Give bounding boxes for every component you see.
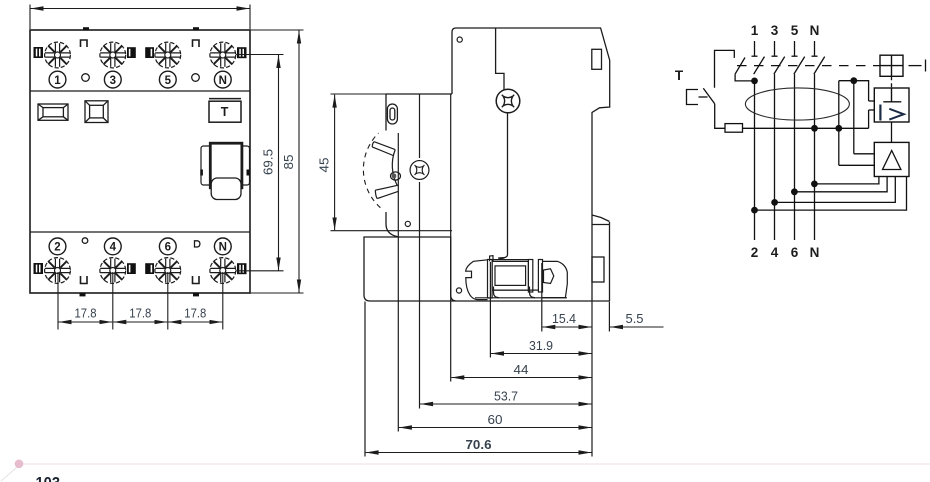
- sense input wire 1: [854, 153, 875, 155]
- dimension 31.9: [491, 353, 592, 355]
- test resistor: [725, 124, 743, 133]
- dimension 85: [250, 30, 304, 293]
- din rail clip left spring: [466, 260, 488, 300]
- side view main outline: [364, 28, 610, 301]
- clamp tab right of screw N bottom: [237, 263, 247, 274]
- svg-text:T: T: [675, 68, 684, 83]
- contact blade pole 3: [774, 57, 785, 75]
- terminal screw N top: [210, 42, 236, 68]
- indicator square: [85, 101, 108, 123]
- sense input wire 2: [839, 164, 875, 166]
- terminal screw 5: [155, 42, 181, 68]
- clamp tab right of screw 3: [127, 47, 136, 58]
- clamp tab right of screw N top: [237, 47, 247, 58]
- bottom edge nub left: [80, 293, 86, 297]
- upper assembly screw: [496, 89, 520, 113]
- sense wire right: [853, 81, 855, 154]
- toggle recess notch left: [200, 170, 203, 176]
- din rail clip bar 2: [528, 260, 532, 293]
- svg-text:6: 6: [791, 245, 799, 260]
- small hole top row: [82, 74, 90, 82]
- svg-text:85: 85: [281, 155, 296, 170]
- clamp tab right of screw 4: [127, 263, 136, 274]
- circled pole number N top: [214, 71, 231, 88]
- sealing slot capsule: [387, 104, 397, 124]
- junction sense left: [835, 125, 842, 132]
- dimension 17.8 second: [113, 321, 167, 323]
- din rail clip bar 1: [488, 260, 493, 299]
- terminal screw 4: [100, 258, 126, 284]
- front view section divider upper: [30, 90, 250, 92]
- u mark bottom right: [193, 276, 200, 284]
- relay to amplifier link: [891, 122, 893, 142]
- contact blade extra: [735, 58, 745, 75]
- dimension 69.5: [236, 55, 284, 271]
- relay bottom wire: [868, 110, 870, 128]
- svg-text:N: N: [810, 245, 820, 260]
- svg-text:2: 2: [54, 242, 60, 254]
- din rail clip bar 3: [538, 260, 542, 293]
- svg-text:17.8: 17.8: [184, 306, 206, 321]
- toggle lever upper arm: [372, 142, 395, 156]
- front view section divider lower: [30, 231, 250, 233]
- pi mark top between 1 and 3: [81, 40, 88, 47]
- inner ridge line: [496, 28, 504, 90]
- svg-text:5: 5: [165, 75, 172, 87]
- front view body outline: [30, 30, 250, 293]
- pole N terminal stub: [812, 41, 818, 56]
- din rail clip right hook: [543, 261, 568, 297]
- din rail cross-section rect: [592, 257, 604, 282]
- dimension 53.7: [420, 403, 591, 405]
- u mark bottom left: [81, 276, 88, 284]
- test wire lower: [715, 104, 725, 129]
- circled pole number 5: [159, 71, 176, 88]
- rail hook flag: [592, 215, 610, 225]
- junction amp 4: [771, 199, 778, 206]
- dimension extension lines below side view: [365, 95, 609, 457]
- circled pole number 1: [49, 71, 66, 88]
- pole 1 wire: [754, 81, 756, 240]
- small D mark bottom row: [195, 241, 200, 247]
- dimension 45: [331, 94, 453, 231]
- lower assembly screw: [410, 161, 429, 180]
- pole 5 wire: [794, 74, 796, 240]
- svg-text:N: N: [810, 23, 820, 38]
- svg-text:5.5: 5.5: [626, 311, 644, 326]
- pole 3 wire: [774, 74, 776, 240]
- relay tab top: [869, 100, 875, 102]
- junction amp 2: [751, 207, 758, 214]
- linkage end tick: [925, 60, 927, 72]
- relay tab bottom: [869, 109, 875, 111]
- circled pole number 4: [104, 238, 121, 255]
- toggle handle: [210, 143, 242, 188]
- junction amp 6: [791, 188, 798, 195]
- test tap elbow: [735, 74, 754, 81]
- svg-text:4: 4: [110, 242, 117, 254]
- clamp tab left of screw 2: [34, 263, 44, 274]
- clamp tab left of screw 5: [145, 47, 154, 58]
- svg-text:17.8: 17.8: [75, 306, 97, 321]
- svg-text:T: T: [221, 105, 229, 119]
- bottom edge nub right: [193, 293, 199, 297]
- linkage dashed line: [737, 65, 880, 67]
- svg-text:17.8: 17.8: [129, 306, 151, 321]
- toggle hub: [392, 150, 397, 186]
- svg-text:1: 1: [751, 23, 759, 38]
- pole 1 terminal stub: [752, 41, 758, 56]
- small hole bottom row: [82, 238, 88, 244]
- terminal screw 1: [45, 42, 71, 68]
- clamp tab left of screw 6: [145, 263, 154, 274]
- dimension 17.8 third: [168, 321, 222, 323]
- terminal screw 6: [155, 258, 181, 284]
- top edge nub left: [83, 27, 89, 30]
- dimension 44: [451, 377, 591, 379]
- overall width dimension (top): [30, 5, 250, 30]
- svg-text:2: 2: [751, 245, 759, 260]
- relay label greater: [889, 109, 904, 120]
- sense wire left: [838, 81, 840, 166]
- amp output wire to 6: [794, 177, 887, 192]
- pole 3 terminal stub: [772, 41, 778, 56]
- circled pole number 6: [159, 238, 176, 255]
- current transformer core: [745, 88, 849, 120]
- circled pole number 2: [49, 238, 66, 255]
- housing hole bottom: [456, 288, 461, 293]
- toggle lever lower arm: [375, 185, 398, 198]
- toggle shaft detail: [391, 172, 401, 180]
- svg-text:3: 3: [771, 23, 779, 38]
- top right notch rect: [592, 49, 602, 69]
- svg-text:N: N: [219, 75, 227, 87]
- housing hole mid: [405, 221, 410, 226]
- footer rule pink: [23, 463, 930, 465]
- housing hole top: [457, 37, 462, 42]
- indicator window rectangle: [38, 104, 68, 120]
- top edge nub right: [193, 27, 199, 30]
- svg-text:45: 45: [317, 158, 332, 173]
- svg-text:N: N: [219, 242, 227, 254]
- svg-text:4: 4: [771, 245, 779, 260]
- relay coil symbol: [883, 88, 901, 102]
- contact blade pole 1: [754, 57, 765, 75]
- test switch fixed wire: [715, 50, 735, 87]
- pole 5 terminal stub: [792, 41, 798, 56]
- svg-text:70.6: 70.6: [466, 437, 492, 452]
- svg-text:1: 1: [54, 75, 61, 87]
- dimension 17.8 first: [59, 321, 113, 323]
- circled pole number 3: [104, 71, 121, 88]
- svg-text:53.7: 53.7: [494, 389, 518, 404]
- footer bullet pink: [15, 460, 24, 469]
- dimension 70.6: [366, 452, 592, 454]
- svg-text:3: 3: [110, 75, 116, 87]
- toggle recess notch right: [247, 170, 251, 176]
- junction amp N: [811, 181, 818, 188]
- test button symbol: [687, 90, 708, 105]
- terminal screw 3: [100, 42, 126, 68]
- contact blade pole 5: [794, 57, 805, 75]
- junction N test: [811, 125, 818, 132]
- mechanism latch box: [880, 55, 903, 76]
- svg-text:15.4: 15.4: [552, 311, 576, 326]
- amplifier box: [874, 142, 909, 176]
- linkage dashed line right of latch: [909, 65, 922, 67]
- toggle lever travel arc: [363, 133, 380, 208]
- svg-text:60: 60: [488, 412, 503, 427]
- din rail clip base lines: [475, 260, 567, 298]
- svg-text:31.9: 31.9: [529, 338, 553, 353]
- toggle handle lower pad: [211, 178, 241, 200]
- dimension 5.5: [610, 326, 664, 328]
- footer corner swoosh: [1, 462, 23, 481]
- din rail clip top step: [490, 256, 493, 262]
- terminal screw 2: [45, 258, 71, 284]
- relay top wire: [839, 81, 869, 101]
- svg-text:44: 44: [514, 362, 529, 377]
- relay label I: [879, 105, 881, 121]
- amplifier triangle: [883, 151, 901, 170]
- din rail clip window: [492, 261, 528, 290]
- clamp tab left of screw 1: [34, 47, 44, 58]
- amp output wire to 2: [754, 177, 906, 211]
- upper screw guide line: [498, 114, 507, 260]
- toggle recess: [201, 146, 250, 185]
- terminal screw N bottom: [210, 258, 236, 284]
- trip relay box I>: [874, 88, 909, 122]
- junction sense right: [850, 77, 857, 84]
- test wire to N: [743, 127, 869, 129]
- amp output wire to 4: [775, 177, 896, 203]
- pole pitch extension lines: [58, 272, 223, 330]
- junction pole1 test tap: [751, 78, 758, 85]
- dimension 15.4: [542, 326, 591, 328]
- pi mark top between 5 and N: [193, 40, 200, 47]
- amp output wire to N: [814, 177, 879, 184]
- svg-text:103: 103: [36, 474, 61, 482]
- test switch blade: [703, 88, 714, 104]
- circled pole number N bottom: [214, 238, 231, 255]
- svg-text:69.5: 69.5: [261, 149, 276, 175]
- small hole top row 2: [192, 74, 200, 82]
- svg-text:5: 5: [791, 23, 799, 38]
- contact blade pole N: [814, 57, 825, 75]
- test button T: [209, 99, 241, 123]
- svg-text:6: 6: [165, 242, 171, 254]
- latch to relay dashed link: [891, 76, 893, 88]
- dimension 60: [399, 427, 592, 429]
- pole N wire: [814, 74, 816, 240]
